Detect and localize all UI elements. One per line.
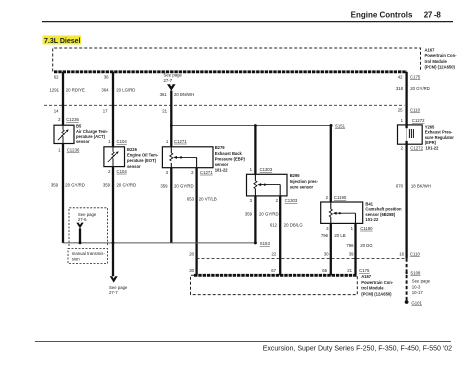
svg-text:sensor: sensor: [215, 162, 229, 167]
wire 612 20 DB/LG: [270, 196, 303, 275]
Y265 label: [425, 125, 455, 151]
svg-text:25: 25: [398, 108, 403, 113]
svg-text:See page: See page: [78, 212, 97, 217]
pin 21: [162, 108, 167, 113]
pin 30: [324, 251, 329, 256]
svg-text:C1303: C1303: [285, 198, 298, 203]
svg-text:C1271: C1271: [174, 139, 187, 144]
svg-text:20 GY/RD: 20 GY/RD: [174, 183, 194, 188]
wire 670 18 BK/WH (EPR ground): [396, 144, 431, 258]
svg-text:27-7: 27-7: [164, 78, 173, 83]
svg-text:20 GY/RD: 20 GY/RD: [410, 86, 430, 91]
wire 361 20 BN/WH: [160, 91, 195, 147]
svg-text:21: 21: [347, 268, 352, 273]
footer rule: [35, 342, 452, 353]
pin 17: [103, 108, 108, 113]
svg-text:Engine Oil Tem-: Engine Oil Tem-: [127, 153, 159, 158]
pin 21 connector C175: [347, 268, 370, 273]
pin 1 connector C104: [108, 139, 127, 144]
svg-text:796: 796: [346, 243, 354, 248]
svg-text:trol Module: trol Module: [425, 59, 448, 64]
pin 1 connector C1272: [401, 118, 426, 123]
svg-text:20 RD/YE: 20 RD/YE: [66, 87, 85, 92]
wire 364 20 LG/RD (PCM 36 to EOT): [101, 72, 135, 147]
svg-text:67: 67: [271, 268, 276, 273]
B5 label: [76, 124, 109, 145]
header Engine Controls 27-8: [42, 11, 453, 22]
svg-text:653: 653: [187, 197, 195, 202]
svg-text:359: 359: [160, 183, 168, 188]
svg-text:20 GY/RD: 20 GY/RD: [65, 182, 85, 187]
svg-text:20 DG: 20 DG: [360, 243, 373, 248]
pin 2 connector C1190: [326, 195, 347, 200]
PCM (bottom) label A167: [361, 274, 394, 296]
svg-text:16: 16: [399, 251, 404, 256]
pin 22: [272, 251, 277, 256]
svg-text:C104: C104: [117, 169, 128, 174]
svg-text:20: 20: [189, 251, 194, 256]
sensor B295 Injection pressure: [247, 174, 288, 196]
svg-text:G101: G101: [411, 301, 422, 306]
pin 3 pin 2 connector C1303: [250, 198, 298, 203]
pin 2 connector C104: [108, 169, 127, 174]
sensor B5 Air Charge Temperature (ACT): [54, 125, 74, 143]
svg-text:A167: A167: [361, 274, 372, 279]
svg-text:S153: S153: [260, 241, 271, 246]
svg-text:C110: C110: [410, 108, 421, 113]
svg-text:27-7: 27-7: [109, 290, 118, 295]
pin 2 connector C1236: [58, 117, 79, 122]
svg-text:17: 17: [103, 108, 108, 113]
svg-text:7.3L Diesel: 7.3L Diesel: [44, 38, 81, 45]
sensor B226 Engine Oil Temperature (EOT): [104, 147, 125, 167]
svg-text:manual transmis-: manual transmis-: [72, 251, 106, 256]
svg-text:B295: B295: [290, 173, 301, 178]
svg-text:30: 30: [324, 251, 329, 256]
svg-text:318: 318: [396, 86, 404, 91]
svg-text:(PCM) (12A650): (PCM) (12A650): [425, 65, 456, 70]
splice S108: [405, 271, 421, 276]
svg-text:27 -8: 27 -8: [424, 11, 442, 20]
svg-text:sensor: sensor: [76, 139, 90, 144]
svg-text:Exhaust Back: Exhaust Back: [215, 151, 243, 156]
svg-text:S108: S108: [410, 271, 421, 276]
see page 10-3 10-17 note: [412, 279, 431, 296]
svg-text:22: 22: [272, 251, 277, 256]
svg-text:C1190: C1190: [334, 195, 347, 200]
svg-text:C1236: C1236: [66, 117, 79, 122]
pin 3 pin 1 connector C1190: [326, 226, 373, 231]
B226 label: [127, 147, 159, 169]
svg-text:sion: sion: [72, 256, 80, 261]
pin 62: [54, 75, 59, 80]
svg-text:C1272: C1272: [412, 118, 425, 123]
connector C110 (top) inline: [44, 104, 405, 106]
manual transmission note box: [68, 249, 108, 264]
svg-text:670: 670: [396, 183, 404, 188]
svg-text:14: 14: [54, 108, 59, 113]
svg-text:20 DB/LG: 20 DB/LG: [284, 223, 304, 228]
wire 359 20 GY/RD (ACT ground): [51, 144, 85, 243]
svg-text:10-17: 10-17: [412, 290, 424, 295]
pin 65: [322, 268, 327, 273]
splice S151: [330, 124, 346, 129]
svg-text:A167: A167: [425, 48, 436, 53]
solenoid Y265 Exhaust Pressure Regulator (EPR): [398, 125, 423, 144]
pin 2 connector C1272: [401, 145, 424, 150]
branch wire to S151: [170, 124, 331, 127]
PCM module A167 (top) dashed box: [53, 48, 421, 72]
svg-text:B226: B226: [127, 147, 138, 152]
svg-text:796: 796: [321, 233, 329, 238]
svg-text:20 LG/RD: 20 LG/RD: [116, 87, 135, 92]
svg-text:S151: S151: [335, 124, 346, 129]
B279 label: [215, 145, 246, 172]
ground G101: [405, 300, 423, 305]
pin 16 connector C110: [399, 251, 420, 256]
svg-text:20 VT/LB: 20 VT/LB: [199, 197, 217, 202]
svg-text:trol Module: trol Module: [361, 286, 384, 291]
svg-text:C1236: C1236: [67, 148, 80, 153]
svg-text:36: 36: [104, 75, 109, 80]
svg-text:27-6: 27-6: [78, 217, 87, 222]
svg-text:sensor: sensor: [127, 164, 141, 169]
svg-text:Powertrain Con-: Powertrain Con-: [361, 280, 394, 285]
wire 653 20 VT/LB (EBP signal): [187, 168, 217, 276]
svg-text:B279: B279: [215, 145, 226, 150]
svg-text:Pressure (EBP): Pressure (EBP): [215, 156, 246, 161]
pin 20: [189, 251, 194, 256]
svg-text:39: 39: [349, 251, 354, 256]
svg-text:65: 65: [322, 268, 327, 273]
connector C110 (bottom) inline: [197, 257, 407, 259]
svg-text:18 BK/WH: 18 BK/WH: [411, 183, 431, 188]
svg-text:C1272: C1272: [410, 145, 423, 150]
pin 1 connector C1236: [58, 148, 80, 153]
svg-text:20 LB: 20 LB: [334, 233, 345, 238]
svg-text:20 GY/RD: 20 GY/RD: [259, 212, 279, 217]
svg-text:21: 21: [162, 108, 167, 113]
pin 1 connector C1271: [166, 139, 187, 144]
pin 25 connector C110: [398, 108, 421, 113]
svg-text:C1303: C1303: [260, 167, 273, 172]
svg-text:62: 62: [54, 75, 59, 80]
sensor B279 Exhaust Back Pressure (EBP): [162, 147, 213, 168]
svg-text:Engine Controls: Engine Controls: [351, 11, 413, 20]
wire 359 20 GY/RD (EOT ground): [103, 167, 136, 277]
svg-text:C104: C104: [117, 139, 128, 144]
sensor B41 Camshaft position (6B288): [321, 202, 363, 223]
pin 67: [271, 268, 276, 273]
off-page arrow See page 27-7 (bottom): [109, 276, 128, 295]
svg-text:364: 364: [101, 87, 109, 92]
svg-text:10-3: 10-3: [412, 284, 421, 289]
pin 14: [54, 108, 59, 113]
connector C175 (top) PCM edge: [54, 70, 407, 73]
svg-text:See page: See page: [412, 279, 431, 284]
dashed ground wire to G101: [406, 258, 408, 301]
svg-text:612: 612: [270, 223, 278, 228]
ground bus wire to S153: [63, 242, 255, 245]
svg-text:(PCM) (12A650): (PCM) (12A650): [361, 291, 392, 296]
pin 39: [349, 251, 354, 256]
svg-text:Powertrain Con-: Powertrain Con-: [425, 53, 458, 58]
wire 796 20 LB: [321, 223, 346, 275]
svg-text:101-22: 101-22: [215, 168, 229, 173]
wire to injection pressure sensor: [254, 126, 256, 175]
svg-text:101-22: 101-22: [365, 217, 379, 222]
pin 42 connector C175: [398, 75, 421, 80]
wire 318 20 GY/RD (PCM 42 to EPR): [396, 72, 430, 125]
svg-text:20 GY/RD: 20 GY/RD: [117, 182, 137, 187]
svg-text:30: 30: [189, 268, 194, 273]
PCM (top) label A167: [425, 48, 458, 70]
wire 359 20 GY/RD (IPR ground): [245, 196, 279, 243]
svg-text:359: 359: [51, 182, 59, 187]
svg-text:Excursion, Super Duty Series F: Excursion, Super Duty Series F-250, F-35…: [263, 346, 452, 353]
svg-text:42: 42: [398, 75, 403, 80]
wire 796 20 DG: [346, 223, 373, 275]
svg-text:359: 359: [245, 212, 253, 217]
svg-text:perature (EOT): perature (EOT): [127, 158, 157, 163]
svg-text:361: 361: [160, 92, 168, 97]
PCM module A167 (bottom) dashed box: [191, 275, 358, 294]
splice S153: [254, 241, 271, 246]
wire S151 to camshaft sensor: [330, 126, 332, 203]
svg-text:359: 359: [103, 182, 111, 187]
title 7.3L Diesel: [43, 36, 82, 46]
svg-text:C1271: C1271: [200, 170, 213, 175]
B295 label: [290, 173, 319, 189]
svg-text:1291: 1291: [49, 87, 59, 92]
svg-text:C175: C175: [359, 268, 370, 273]
svg-text:sure sensor: sure sensor: [290, 184, 314, 189]
pin 1 connector C1303: [250, 167, 273, 172]
wire 1291 20 RD/YE (PCM 62 to ACT): [49, 72, 85, 125]
B41 label: [365, 202, 402, 223]
off-page arrow See page 27-7 (top): [164, 73, 183, 91]
svg-text:See page: See page: [164, 73, 183, 78]
svg-text:C1190: C1190: [360, 226, 373, 231]
svg-text:101-22: 101-22: [426, 145, 440, 150]
pin 3 pin 2 connector C1271: [166, 170, 214, 175]
svg-text:C175: C175: [410, 75, 421, 80]
svg-text:20 BN/WH: 20 BN/WH: [174, 92, 194, 97]
pin 30: [189, 268, 194, 273]
off-page arrow See page 27-6 (manual transmission): [69, 208, 108, 246]
pin 36: [104, 75, 109, 80]
wire 359 20 GY/RD (EBP ground): [160, 168, 193, 243]
svg-text:C110: C110: [410, 251, 421, 256]
connector C175 (bottom) PCM edge: [194, 274, 357, 277]
svg-text:Injection pres-: Injection pres-: [290, 179, 319, 184]
